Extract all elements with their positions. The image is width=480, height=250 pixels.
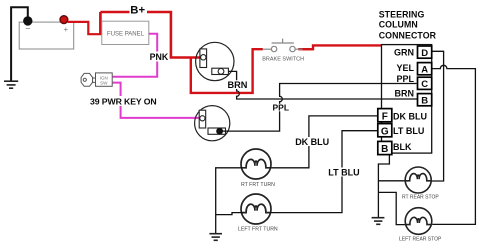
pin A (418, 63, 432, 75)
battery positive terminal (60, 16, 68, 24)
lamp RT REAR STOP (405, 167, 431, 193)
ground (rear lamps) (372, 218, 385, 225)
ignition switch key head (81, 73, 95, 86)
svg-text:LEFT FRT TURN: LEFT FRT TURN (238, 226, 278, 232)
wire connector A to LEFT REAR STOP (with hop) (432, 65, 476, 224)
svg-text:+: + (63, 25, 68, 34)
flasher U2 input contact (199, 110, 206, 128)
svg-text:PPL: PPL (396, 74, 414, 84)
flasher U1 input contact (200, 49, 207, 68)
steering column connector outline (382, 45, 432, 154)
lamp LEFT REAR STOP (405, 208, 432, 235)
wire DK BLU from RT FRT TURN to connector F (271, 116, 378, 168)
svg-text:RT REAR STOP: RT REAR STOP (402, 194, 439, 200)
label PPL (272, 104, 289, 112)
pin D (418, 46, 432, 58)
svg-text:BRN: BRN (228, 80, 248, 90)
label B+ (130, 5, 148, 16)
ground (front lamps) (209, 234, 222, 241)
svg-text:B: B (381, 144, 388, 155)
brake switch (263, 39, 303, 52)
wire PNK from ignition switch to flasher 2 (113, 83, 202, 118)
svg-text:BRN: BRN (395, 88, 415, 98)
lamp RT FRT TURN (241, 149, 271, 179)
wire PPL from flasher U2 to connector C (223, 84, 417, 132)
svg-text:LT BLU: LT BLU (328, 167, 359, 177)
svg-text:F: F (382, 111, 388, 122)
battery (19, 22, 73, 49)
svg-text:FUSE PANEL: FUSE PANEL (107, 32, 145, 38)
wire red branch down to brake switch feed (191, 49, 263, 93)
pin G (378, 124, 392, 137)
label 39 PWR KEY ON (89, 96, 153, 106)
pin C (418, 77, 432, 89)
svg-text:CONNECTOR: CONNECTOR (379, 31, 437, 41)
fuse panel (102, 21, 149, 44)
wire PNK from fuse panel to ignition switch (113, 34, 158, 77)
flasher U2 circle (195, 106, 230, 141)
svg-text:B+: B+ (130, 4, 145, 16)
svg-text:BLK: BLK (393, 142, 412, 152)
svg-text:GRN: GRN (394, 48, 414, 58)
svg-text:PNK: PNK (150, 52, 169, 62)
svg-text:C: C (421, 79, 428, 90)
title STEERING COLUMN CONNECTOR (379, 9, 437, 40)
lamp LEFT FRT TURN (241, 194, 271, 224)
label PNK (148, 52, 167, 62)
svg-text:D: D (421, 48, 428, 59)
svg-text:LT BLU: LT BLU (393, 126, 424, 136)
svg-text:G: G (381, 126, 389, 137)
wire BLK to ground (378, 155, 389, 218)
wire brake switch right lead (red) (303, 48, 313, 50)
ignition switch body (96, 73, 113, 86)
svg-text:IGN: IGN (100, 75, 108, 80)
flasher U1 circle (196, 42, 234, 80)
svg-text:PPL: PPL (273, 102, 290, 112)
svg-text:39 PWR KEY ON: 39 PWR KEY ON (90, 96, 157, 106)
wire RT REAR STOP left lead (378, 180, 405, 182)
svg-text:STEERING: STEERING (379, 9, 425, 19)
label BRN (227, 80, 246, 89)
svg-text:LEFT REAR STOP: LEFT REAR STOP (399, 237, 442, 243)
battery negative terminal (24, 17, 32, 25)
svg-text:RT FRT TURN: RT FRT TURN (241, 182, 275, 188)
wire LT BLU from LEFT FRT TURN to connector G (271, 131, 378, 213)
svg-text:YEL: YEL (396, 63, 414, 73)
wire B+ riser (red) (99, 12, 102, 34)
pin F (378, 109, 392, 122)
wire connector D to RT REAR STOP (431, 51, 443, 181)
wire brake switch to connector GRN (red) (298, 45, 381, 49)
wire LEFT FRT TURN left lead with jog (216, 213, 244, 215)
svg-text:DK BLU: DK BLU (393, 111, 427, 121)
ground (battery) (4, 81, 18, 88)
svg-text:SW: SW (100, 81, 108, 86)
svg-text:A: A (421, 65, 428, 76)
wire LEFT REAR STOP left lead (378, 192, 405, 224)
svg-text:BRAKE SWITCH: BRAKE SWITCH (262, 56, 304, 62)
wire BRN from flasher U1 to connector B (228, 71, 417, 99)
wire B+ top run (red) (100, 12, 202, 58)
flasher U1 output contact (212, 68, 229, 74)
label LT BLU (328, 168, 358, 177)
svg-text:COLUMN: COLUMN (379, 20, 418, 30)
pin B (lower) (378, 141, 392, 154)
wire battery negative to ground (black) (11, 7, 28, 81)
wire battery positive to fuse panel (red) (68, 22, 102, 34)
wire front lamps to ground (216, 168, 242, 233)
flasher U2 output contact (208, 128, 226, 134)
pin B (418, 94, 432, 106)
label DK BLU (294, 137, 326, 146)
svg-text:DK BLU: DK BLU (295, 137, 329, 147)
svg-text:B: B (421, 96, 428, 107)
